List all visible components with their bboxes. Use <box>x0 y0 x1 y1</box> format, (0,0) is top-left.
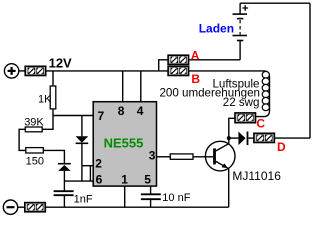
minus supply terminal <box>3 200 17 214</box>
terminal block minus <box>25 203 46 212</box>
wire battery to A block <box>189 59 240 61</box>
wire 1K bottom to pin7 node <box>52 109 54 129</box>
wire 10nF to ground rail <box>150 199 152 207</box>
wire top rail <box>240 2 310 4</box>
svg-text:7: 7 <box>98 109 105 123</box>
resistor R2 39K <box>25 127 42 132</box>
wire emitter down <box>228 169 230 208</box>
svg-text:4: 4 <box>137 104 144 118</box>
svg-text:1: 1 <box>121 173 128 187</box>
svg-text:8: 8 <box>118 104 125 118</box>
svg-text:39K: 39K <box>24 117 44 129</box>
battery BT1 <box>233 3 248 60</box>
svg-text:D: D <box>277 140 286 154</box>
wire pin 7 <box>53 115 94 117</box>
wire plus terminal to block <box>19 70 25 72</box>
wire right rail <box>309 3 311 138</box>
transistor Q1 MJ11016 <box>205 141 235 171</box>
junction node collector <box>227 136 231 140</box>
svg-text:12V: 12V <box>49 55 72 70</box>
resistor R3 150 <box>26 148 44 153</box>
terminal block C <box>235 113 256 123</box>
svg-text:NE555: NE555 <box>104 135 144 150</box>
svg-text:1nF: 1nF <box>74 193 93 205</box>
wire base resistor to transistor <box>193 156 213 158</box>
wire D2 to pin6 and 1nF <box>63 171 65 191</box>
svg-text:1K: 1K <box>38 93 52 105</box>
wire pin 3 <box>157 156 171 158</box>
battery plus sign <box>242 5 248 11</box>
wire D3 to block D <box>248 137 254 139</box>
wire node to C block <box>229 118 235 138</box>
resistor R1 1K <box>50 86 56 109</box>
wire 150 right to diode D2 <box>43 150 64 163</box>
wire D block to right rail <box>274 137 310 139</box>
wire collector up <box>228 138 230 144</box>
wire 1nF to ground rail <box>63 195 65 207</box>
svg-text:22 swg: 22 swg <box>223 96 260 109</box>
svg-text:C: C <box>256 116 265 130</box>
wire pin2 to pin6 link <box>89 166 91 181</box>
wire ground rail <box>45 206 228 208</box>
diode D3 <box>238 132 247 146</box>
svg-text:2: 2 <box>95 156 102 170</box>
svg-text:A: A <box>191 49 200 63</box>
resistor R4 base <box>170 154 193 159</box>
svg-text:10 nF: 10 nF <box>162 192 190 204</box>
diode D2 <box>58 164 71 171</box>
svg-text:Laden: Laden <box>199 21 234 35</box>
capacitor C2 10nF <box>141 194 161 199</box>
svg-text:MJ11016: MJ11016 <box>232 169 281 183</box>
wire A block to rail bend <box>159 60 168 71</box>
wire 39K left down to 150 <box>19 129 26 150</box>
svg-text:5: 5 <box>144 173 151 187</box>
IC U1 NE555 <box>93 102 156 186</box>
wire node to diode D3 <box>229 137 239 139</box>
svg-text:3: 3 <box>149 149 156 163</box>
capacitor C1 1nF <box>54 191 74 195</box>
wire pin 4 <box>140 71 142 102</box>
wire pin 5 <box>150 186 152 194</box>
svg-text:150: 150 <box>26 156 44 168</box>
svg-text:B: B <box>191 72 200 86</box>
wire pin 6 <box>64 180 94 182</box>
coil L1 loops <box>262 71 269 110</box>
wire 12V rail <box>46 70 168 72</box>
diode D1 <box>76 116 89 182</box>
terminal block D <box>254 133 275 142</box>
wire pin 8 <box>122 71 124 102</box>
terminal block supply <box>25 66 46 75</box>
wire minus terminal to block <box>18 206 25 208</box>
terminal block A <box>168 55 189 64</box>
wire pin 1 <box>124 186 126 207</box>
svg-text:6: 6 <box>96 173 103 187</box>
plus supply terminal <box>4 64 18 78</box>
wire rail to 1K <box>52 71 54 86</box>
wire pin 2 <box>82 165 94 167</box>
terminal block B <box>168 66 189 75</box>
wire 39K right link <box>42 128 54 130</box>
wire coil L1 <box>189 71 270 117</box>
